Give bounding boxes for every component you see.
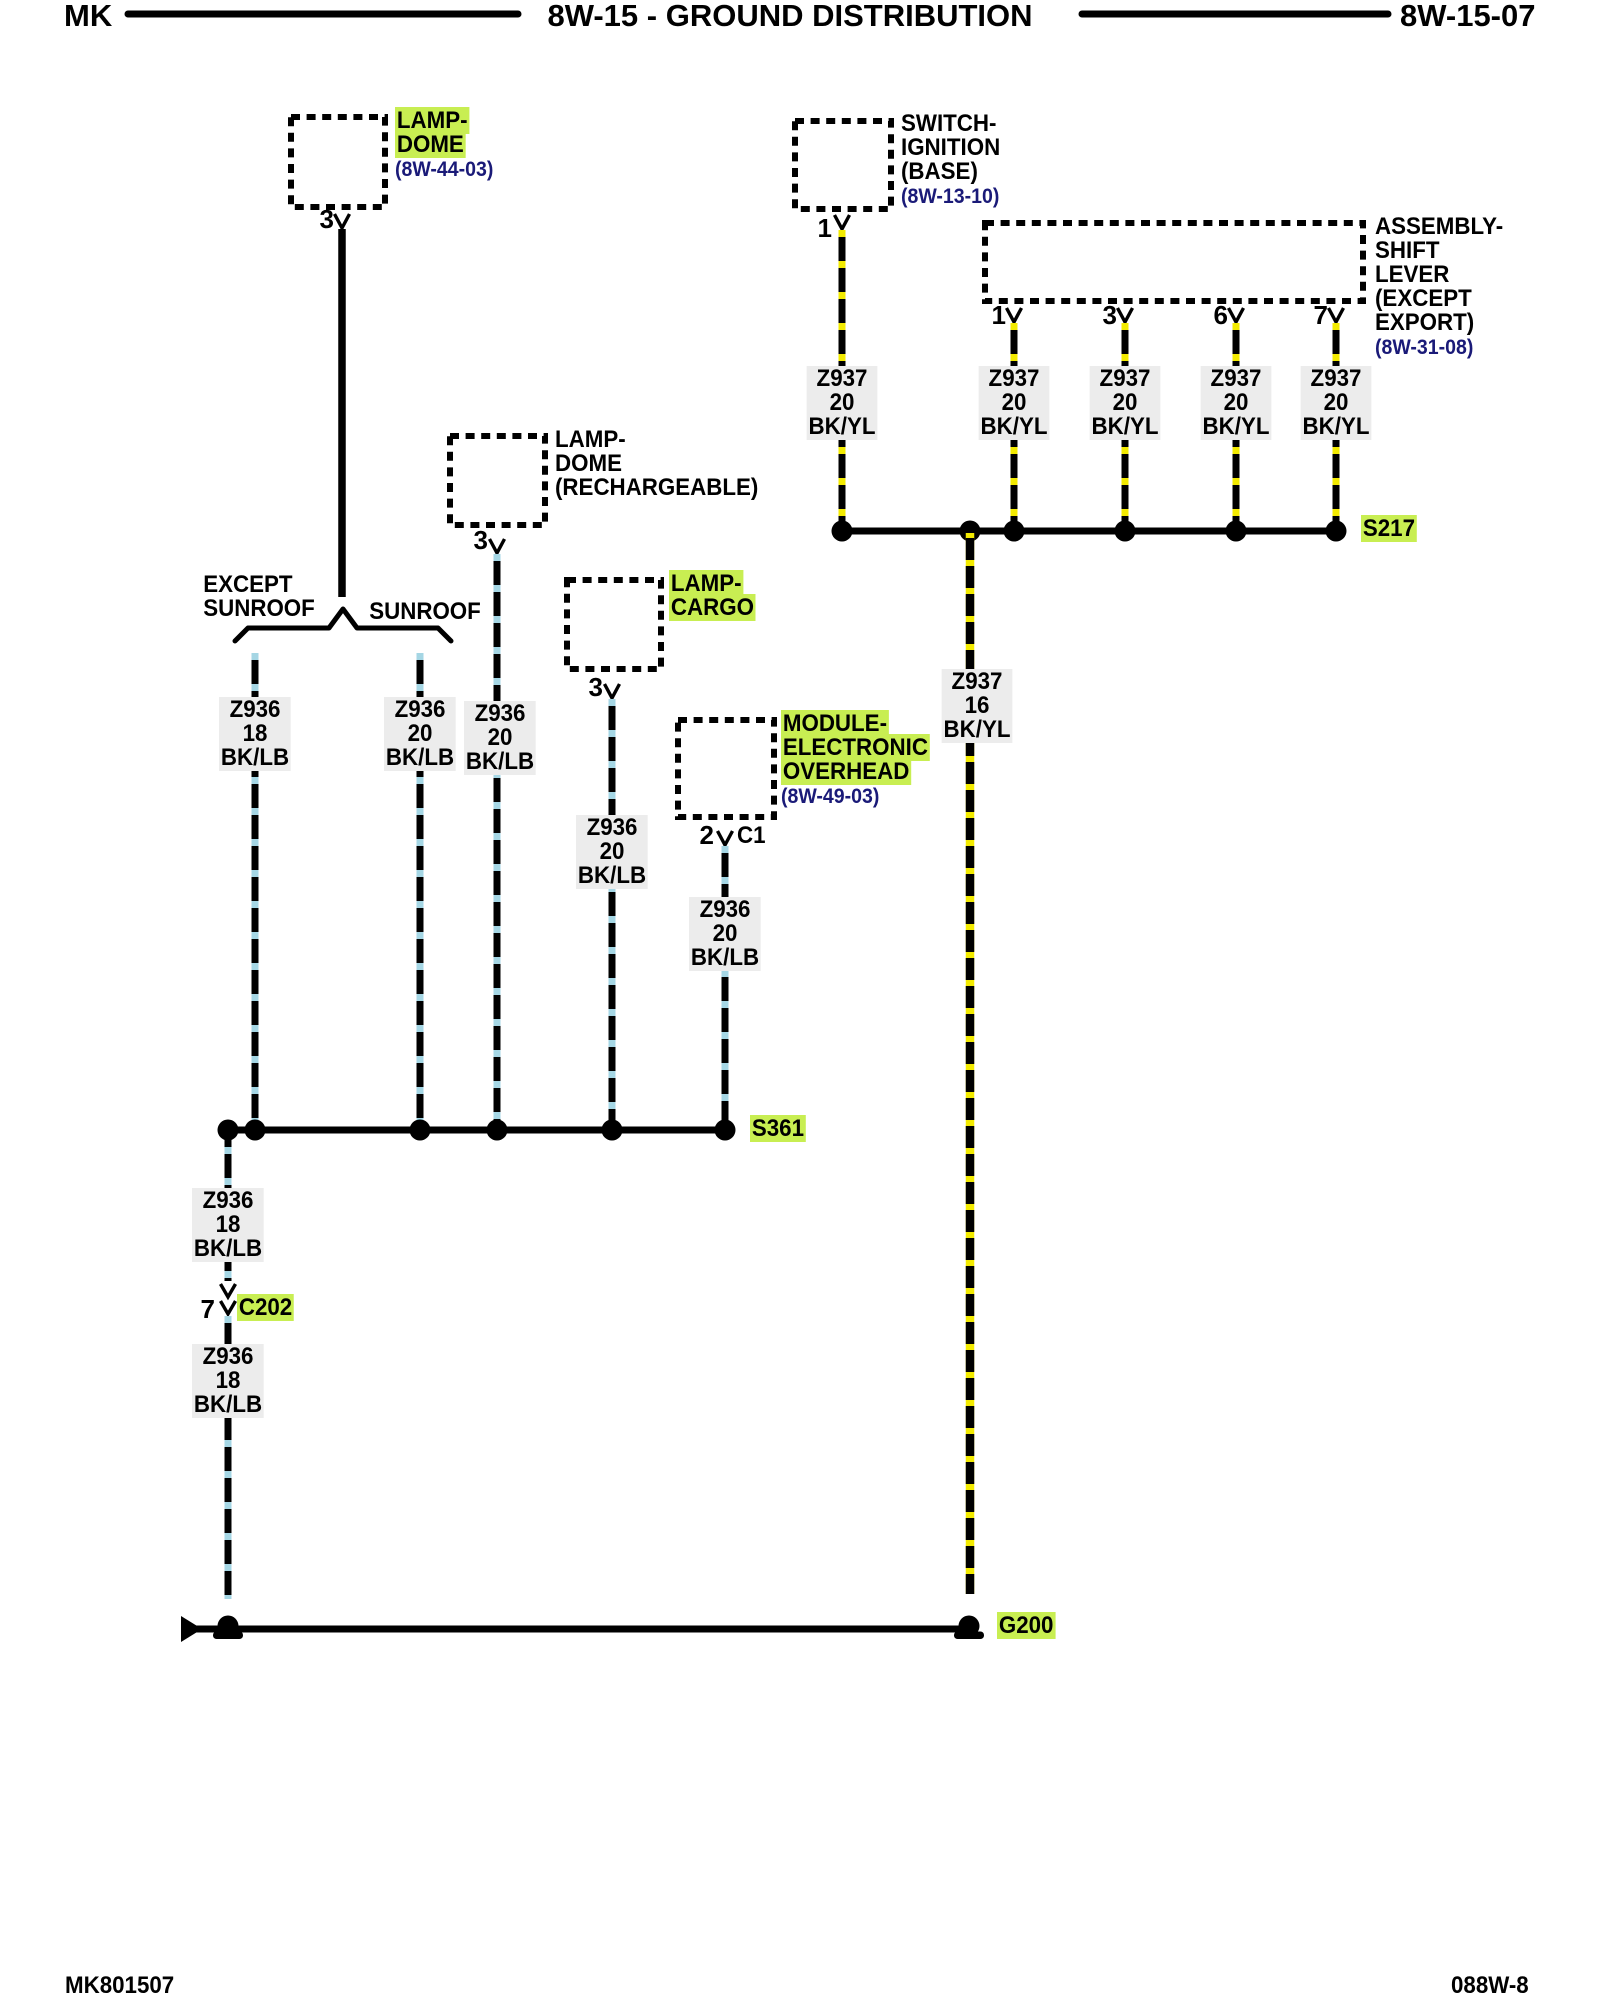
connector label C202 bbox=[237, 1296, 294, 1320]
ground stud right (Z937 branch) bbox=[954, 1616, 984, 1640]
footer drawing number 088W-8 bbox=[1451, 1974, 1529, 1998]
junction dot S361 wire A bbox=[245, 1120, 266, 1141]
ground label G200 bbox=[997, 1614, 1055, 1638]
junction dot S217 pin7 wire bbox=[1326, 521, 1347, 542]
wire label Z937 20 BK/YL (pin 3) bbox=[1090, 366, 1161, 440]
junction dot S217 ignition wire bbox=[832, 521, 853, 542]
header title 8W-15 - GROUND DISTRIBUTION bbox=[547, 0, 1032, 31]
junction dot S361 wire E bbox=[715, 1120, 736, 1141]
wire Z936 18 BK/LB from S361 to C202 bbox=[225, 1130, 232, 1281]
junction dot S361 left end bbox=[218, 1120, 239, 1141]
junction dot S217 pin6 wire bbox=[1226, 521, 1247, 542]
wire label Z937 20 BK/YL (pin 1) bbox=[979, 366, 1050, 440]
label MODULE-ELECTRONIC OVERHEAD bbox=[781, 712, 930, 809]
connector box SWITCH-IGNITION (BASE) bbox=[795, 121, 891, 209]
wire Z936 20 BK/LB from rechargeable dome bbox=[494, 554, 501, 1128]
ground stud left (C202 branch) bbox=[213, 1616, 243, 1640]
pin number 3 (cargo lamp) bbox=[589, 674, 603, 700]
splice bus S217 bbox=[842, 528, 1336, 535]
pin 1 terminal of shift lever bbox=[1007, 308, 1022, 322]
footer sheet code MK801507 bbox=[65, 1974, 174, 1998]
splice label S361 bbox=[750, 1117, 806, 1141]
wire label Z937 20 BK/YL (ignition) bbox=[807, 366, 878, 440]
wire Z936 18 BK/LB (except sunroof) bbox=[252, 653, 259, 1128]
label SUNROOF bbox=[369, 600, 481, 624]
label LAMP-DOME bbox=[395, 109, 493, 182]
junction dot S361 wire B bbox=[410, 1120, 431, 1141]
pin 2 C1 terminal of overhead module bbox=[718, 831, 733, 845]
wire Z936 20 BK/LB from cargo lamp bbox=[609, 699, 616, 1128]
wire Z937 20 BK/YL shift lever pin 6 bbox=[1233, 323, 1240, 528]
wire Z937 20 BK/YL shift lever pin 7 bbox=[1333, 323, 1340, 528]
pin number 3 (rechargeable dome) bbox=[474, 527, 488, 553]
header page number 8W-15-07 bbox=[1400, 0, 1536, 31]
label LAMP-CARGO bbox=[669, 572, 756, 620]
wire label Z936 18 BK/LB (below C202) bbox=[192, 1344, 264, 1418]
wire label Z937 20 BK/YL (pin 7) bbox=[1301, 366, 1372, 440]
pin 6 terminal of shift lever bbox=[1229, 308, 1244, 322]
wire Z937 20 BK/YL shift lever pin 1 bbox=[1011, 323, 1018, 528]
label SWITCH-IGNITION (BASE) bbox=[901, 112, 1000, 209]
header label MK bbox=[64, 0, 112, 31]
junction dot S361 wire C bbox=[487, 1120, 508, 1141]
wire Z936 20 BK/LB from overhead module bbox=[722, 846, 729, 1128]
wire label Z936 20 BK/LB (wire C) bbox=[464, 701, 536, 775]
splice bus S361 bbox=[220, 1127, 732, 1134]
splice label S217 bbox=[1361, 517, 1417, 541]
wire label Z936 18 BK/LB (above C202) bbox=[192, 1188, 264, 1262]
junction dot S217 pin1 wire bbox=[1004, 521, 1025, 542]
pin number 7 (shift lever) bbox=[1314, 302, 1328, 328]
pin number 6 (shift lever) bbox=[1214, 302, 1228, 328]
pin 1 terminal of ignition switch bbox=[835, 215, 850, 229]
wire label Z936 20 BK/LB (wire E) bbox=[689, 897, 761, 971]
pin number 7 at C202 bbox=[201, 1296, 215, 1322]
label EXCEPT SUNROOF bbox=[203, 573, 315, 621]
label ASSEMBLY-SHIFT LEVER (EXCEPT EXPORT) bbox=[1375, 215, 1503, 360]
pin number 3 (lamp dome) bbox=[320, 206, 334, 232]
pin number 2 and connector C1 bbox=[700, 822, 714, 848]
header rule left bbox=[128, 11, 518, 18]
pin 3 terminal of LAMP-DOME bbox=[335, 214, 350, 228]
pin 7 terminal of shift lever bbox=[1329, 308, 1344, 322]
connector box ASSEMBLY-SHIFT LEVER bbox=[985, 223, 1363, 301]
header rule right bbox=[1082, 11, 1388, 18]
wire label Z936 20 BK/LB (wire D) bbox=[576, 815, 648, 889]
pin number 1 (shift lever) bbox=[992, 302, 1006, 328]
junction dot S361 wire D bbox=[602, 1120, 623, 1141]
connector C202 lower terminal bbox=[221, 1301, 236, 1314]
wire Z937 20 BK/YL shift lever pin 3 bbox=[1122, 323, 1129, 528]
pin 3 terminal of LAMP-DOME (RECHARGEABLE) bbox=[490, 539, 505, 553]
wire Z937 20 BK/YL from ignition switch bbox=[839, 230, 846, 528]
connector box LAMP-DOME bbox=[291, 117, 385, 207]
connector box LAMP-CARGO bbox=[567, 580, 661, 669]
wire Z937 16 BK/YL from S217 to G200 bbox=[966, 533, 975, 1594]
pin number 1 (ignition switch) bbox=[818, 215, 832, 241]
connector C202 upper terminal bbox=[221, 1284, 236, 1297]
wire label Z937 16 BK/YL bbox=[942, 669, 1013, 743]
brace EXCEPT SUNROOF / SUNROOF bbox=[235, 609, 451, 641]
label LAMP-DOME (RECHARGEABLE) bbox=[555, 428, 758, 500]
wire label Z937 20 BK/YL (pin 6) bbox=[1201, 366, 1272, 440]
ground arrow at G200 left end bbox=[181, 1616, 202, 1642]
pin number 3 (shift lever) bbox=[1103, 302, 1117, 328]
connector box MODULE-ELECTRONIC OVERHEAD bbox=[678, 720, 774, 817]
wire Z936 20 BK/LB (sunroof) bbox=[417, 653, 424, 1128]
junction dot S217 down wire bbox=[960, 521, 981, 542]
pin 3 terminal of LAMP-CARGO bbox=[605, 684, 620, 698]
wire Z936 18 BK/LB from C202 to G200 bbox=[225, 1316, 232, 1599]
wire from LAMP-DOME pin 3 (solid black) bbox=[338, 229, 346, 597]
wire label Z936 20 BK/LB (wire B) bbox=[384, 697, 456, 771]
pin 3 terminal of shift lever bbox=[1118, 308, 1133, 322]
junction dot S217 pin3 wire bbox=[1115, 521, 1136, 542]
ground bus G200 bbox=[196, 1626, 966, 1633]
wire label Z936 18 BK/LB (wire A) bbox=[219, 697, 291, 771]
connector box LAMP-DOME (RECHARGEABLE) bbox=[450, 436, 545, 525]
